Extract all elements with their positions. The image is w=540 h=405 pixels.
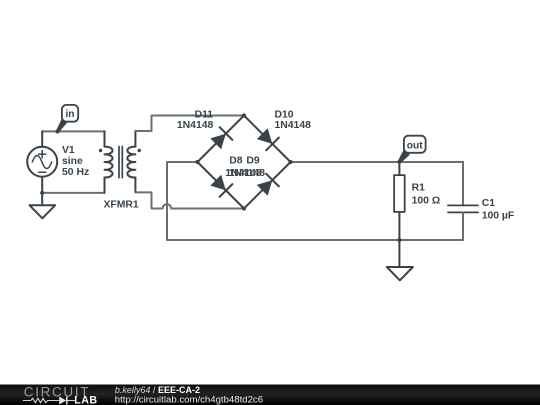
node in (55, 129, 59, 133)
label out (407, 141, 423, 152)
svg-text:D11: D11 (195, 109, 214, 120)
net flag out (398, 136, 426, 164)
footer bar (0, 385, 540, 405)
wire transformer secondary top to bridge (135, 116, 244, 132)
node bridge right (288, 160, 292, 164)
svg-text:D9: D9 (246, 156, 260, 167)
label V1 value (62, 145, 89, 178)
label D9 (229, 156, 266, 180)
svg-text:1N4148: 1N4148 (275, 120, 312, 131)
svg-text:b.kelly64 / EEE-CA-2: b.kelly64 / EEE-CA-2 (115, 385, 200, 395)
diode D8 (209, 174, 232, 197)
svg-text:D10: D10 (275, 109, 294, 120)
label C1 value (482, 198, 515, 221)
capacitor C1 (448, 162, 478, 240)
svg-text:LAB: LAB (74, 394, 97, 405)
diode bridge frame (198, 116, 291, 209)
diode D10 (256, 127, 279, 150)
svg-text:1N4148: 1N4148 (177, 120, 214, 131)
node V1 ground junction (40, 191, 44, 195)
label D8 (225, 156, 262, 180)
svg-text:out: out (407, 141, 423, 152)
svg-text:C1: C1 (482, 198, 496, 209)
wire bridge right node to out (291, 161, 464, 163)
svg-text:XFMR1: XFMR1 (104, 200, 139, 211)
svg-text:50 Hz: 50 Hz (62, 167, 89, 178)
node bridge bottom (242, 206, 246, 210)
svg-text:R1: R1 (412, 183, 426, 194)
node bridge left (195, 160, 199, 164)
footer credit text (115, 385, 263, 405)
diode D9 (256, 174, 279, 197)
wire V1 bottom to transformer primary (42, 192, 104, 194)
wire bridge left node to ground bus (167, 162, 198, 240)
svg-text:in: in (65, 109, 74, 120)
svg-text:100 µF: 100 µF (482, 210, 515, 221)
net flag in (56, 105, 78, 132)
node R1 bottom (397, 238, 401, 242)
label R1 value (412, 183, 441, 207)
wire transformer secondary bottom to bridge (with hop) (135, 192, 244, 208)
svg-text:1N4148: 1N4148 (229, 168, 266, 179)
label XFMR1 (104, 200, 139, 211)
logo CircuitLab (23, 384, 98, 405)
label D10 (275, 109, 312, 131)
diode D11 (209, 127, 232, 150)
node bridge top (242, 113, 246, 117)
svg-text:sine: sine (62, 156, 83, 167)
transformer XFMR1 (99, 131, 141, 193)
wire bottom ground bus (167, 239, 463, 241)
ground under R1 (387, 240, 413, 280)
label D11 (177, 109, 214, 131)
wire V1 top to transformer primary (42, 130, 104, 132)
svg-text:100 Ω: 100 Ω (412, 195, 441, 206)
voltage source V1 (27, 131, 57, 193)
node out (397, 160, 401, 164)
svg-text:D8: D8 (229, 156, 243, 167)
resistor R1 (394, 162, 405, 240)
label in (65, 109, 74, 120)
svg-text:http://circuitlab.com/ch4gtb48: http://circuitlab.com/ch4gtb48td2c6 (115, 395, 263, 405)
ground under V1 (30, 193, 55, 218)
svg-text:V1: V1 (62, 145, 75, 156)
